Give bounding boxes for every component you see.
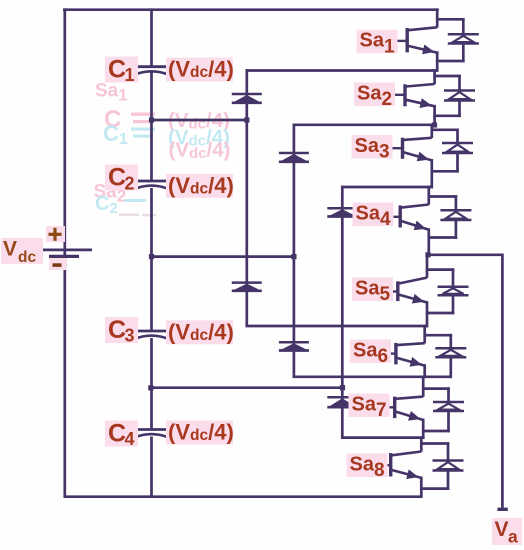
label Sa4 — [353, 203, 394, 231]
wire j7 clamp link (column 3 bottom to Sa7/Sa8 junction) — [341, 436, 425, 439]
transistor Sa5 (IGBT switch) — [384, 254, 427, 328]
wire output node a to right edge — [427, 253, 502, 256]
ghost text (Vdc/4) pink 1 (artifact) — [168, 109, 230, 133]
svg-text:Sa: Sa — [356, 203, 381, 225]
transistor Sa4 (IGBT switch) — [386, 186, 429, 256]
anti-parallel diode of Sa5 — [426, 268, 469, 314]
anti-parallel diode of Sa1 — [436, 18, 479, 62]
node n1 wire (C1-C2 junction to clamp column 1) — [149, 117, 250, 122]
svg-text:C: C — [108, 164, 126, 192]
anti-parallel diode of Sa7 — [422, 387, 464, 432]
ghost dashes (artifact) — [119, 214, 156, 217]
svg-text:V: V — [3, 238, 17, 261]
svg-text:3: 3 — [379, 142, 390, 163]
value label (Vdc/4) for C2 — [166, 173, 234, 198]
svg-text:4: 4 — [125, 429, 135, 449]
ghost text (Vdc/4) cyan (artifact) — [168, 126, 230, 150]
ghost text (Vdc/4) pink 2 (artifact) — [169, 139, 231, 163]
ghost text C1 pink (artifact) — [104, 106, 155, 133]
wire output vertical down to Va — [501, 254, 504, 509]
wire j5 clamp link (column 1 bottom to Sa5/Sa6 junction) — [246, 325, 428, 328]
clamp diode D1 (column 1 upper) — [232, 94, 262, 103]
label Sa7 — [349, 394, 390, 422]
svg-text:5: 5 — [380, 284, 391, 305]
ghost text C1 cyan (artifact) — [103, 121, 155, 148]
label + (battery positive) — [46, 226, 65, 242]
label Sa1 — [357, 30, 398, 58]
svg-text:2: 2 — [382, 89, 393, 110]
transistor Sa1 (IGBT switch) — [393, 8, 437, 71]
transistor Sa2 (IGBT switch) — [391, 69, 435, 126]
anti-parallel diode of Sa8 — [420, 442, 464, 490]
wire clamp column 3 vertical — [341, 186, 344, 439]
wire j1 clamp link (column 1 top to Sa1/Sa2 junction) — [246, 69, 438, 72]
node a output junction dot — [425, 252, 430, 257]
svg-text:dc: dc — [18, 249, 36, 266]
transistor Sa3 (IGBT switch) — [389, 124, 432, 189]
svg-text:3: 3 — [125, 326, 135, 346]
svg-text:4: 4 — [380, 209, 391, 230]
capacitor C3 — [135, 331, 168, 339]
svg-text:Sa: Sa — [352, 394, 377, 416]
capacitor C4 — [135, 430, 168, 438]
wire clamp column 2 vertical — [293, 124, 296, 378]
svg-text:C: C — [108, 316, 126, 344]
ghost text Sa1 (artifact) — [95, 81, 128, 105]
wire top rail (P bus) — [63, 8, 439, 11]
anti-parallel diode of Sa6 — [423, 334, 466, 378]
clamp diode D6 (column 3 lower) — [327, 397, 357, 407]
wire j2 clamp link (column 2 top to Sa2/Sa3 junction) — [293, 122, 438, 127]
svg-text:Sa: Sa — [353, 340, 378, 362]
svg-text:Sa: Sa — [355, 135, 380, 157]
svg-text:7: 7 — [376, 400, 387, 421]
wire bottom rail (N bus) — [64, 495, 423, 498]
ghost text C2 cyan (artifact) — [95, 193, 146, 217]
svg-text:2: 2 — [125, 174, 135, 194]
label C2 — [105, 164, 138, 194]
wire j3 clamp link (column 3 top to Sa3/Sa4 junction) — [341, 186, 433, 189]
node n2 wire (C2-C3 junction to clamp column 2) — [149, 254, 297, 259]
transistor Sa7 (IGBT switch) — [381, 376, 424, 439]
svg-text:Sa: Sa — [355, 278, 380, 300]
label Sa8 — [347, 454, 388, 482]
label Sa3 — [352, 135, 393, 163]
value label (Vdc/4) for C3 — [166, 319, 234, 344]
battery Vdc short plate (-) — [49, 255, 79, 258]
wire capacitor-string vertical — [150, 8, 153, 498]
label - (battery negative) — [49, 258, 66, 270]
anti-parallel diode of Sa4 — [428, 195, 472, 239]
clamp diode D5 (column 3 upper) — [327, 208, 357, 216]
transistor Sa6 (IGBT switch) — [382, 325, 425, 378]
label Va — [492, 518, 522, 547]
label Sa5 — [352, 278, 393, 306]
svg-text:Sa: Sa — [357, 83, 382, 105]
capacitor C2 — [135, 181, 168, 189]
svg-text:Sa: Sa — [360, 30, 385, 52]
svg-text:C1: C1 — [103, 121, 128, 148]
output terminal cap — [497, 508, 507, 511]
ghost text Sa2 (artifact) — [94, 182, 127, 206]
transistor Sa8 (IGBT switch) — [377, 436, 422, 498]
clamp diode D3 (column 2 upper) — [279, 153, 309, 162]
label Vdc — [1, 238, 43, 267]
label C3 — [105, 316, 138, 346]
svg-text:a: a — [508, 527, 518, 547]
clamp diode D4 (column 2 lower) — [279, 342, 309, 350]
svg-text:V: V — [495, 518, 509, 541]
svg-text:6: 6 — [378, 346, 389, 367]
svg-text:Sa: Sa — [350, 454, 375, 476]
svg-text:Sa1: Sa1 — [95, 81, 128, 105]
anti-parallel diode of Sa3 — [431, 129, 474, 173]
label Sa6 — [350, 340, 391, 368]
svg-text:1: 1 — [125, 65, 135, 85]
battery Vdc long plate (+) — [40, 249, 92, 252]
svg-text:C: C — [108, 420, 126, 448]
clamp diode D2 (column 1 lower) — [232, 283, 262, 291]
value label (Vdc/4) for C1 — [166, 57, 234, 82]
value label (Vdc/4) for C4 — [166, 420, 234, 445]
label C4 — [105, 420, 138, 450]
anti-parallel diode of Sa2 — [433, 75, 475, 117]
svg-text:8: 8 — [374, 460, 385, 481]
node n3 wire (C3-C4 junction to clamp column 3) — [148, 385, 345, 390]
capacitor C1 — [135, 67, 168, 75]
svg-text:C: C — [108, 56, 126, 84]
label C1 — [105, 56, 138, 85]
wire j6 clamp link (column 2 bottom to Sa6/Sa7 junction) — [293, 375, 452, 378]
label Sa2 — [354, 83, 395, 111]
svg-text:1: 1 — [384, 36, 395, 57]
wire left bus vertical — [63, 8, 66, 498]
wire clamp column 1 vertical (j1 to j5 link) — [245, 69, 248, 327]
